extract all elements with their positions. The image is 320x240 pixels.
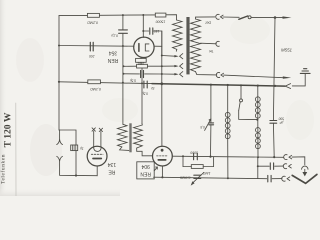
wire tap3 ext — [162, 73, 175, 75]
resistor R3 — [137, 64, 148, 68]
jack J2 — [216, 41, 219, 46]
bus B1 left — [59, 82, 152, 84]
wire coil2 tap to jack2 — [201, 42, 217, 45]
contact jaws tap1 — [180, 54, 183, 59]
phone plug hook — [302, 166, 308, 169]
speaker V contacts — [292, 174, 317, 183]
node V0 grid line — [58, 45, 60, 47]
node JL line — [75, 174, 77, 176]
variable capacitor VC2 plates — [194, 175, 201, 178]
grid resistor branch right — [213, 157, 215, 167]
wire Lc right to rail — [153, 31, 162, 56]
resistor R4 on bus — [88, 80, 101, 84]
node K0 Wk — [227, 177, 229, 179]
plug chevron J3 — [221, 73, 224, 77]
svg-text:200: 200 — [89, 54, 96, 58]
jack J6 — [282, 176, 285, 181]
wire between boxes — [140, 62, 142, 64]
wire REN354 to rail — [154, 45, 162, 47]
tube RE134 grid — [91, 153, 103, 155]
wire V275 lower — [272, 123, 275, 157]
jack JL upper fork — [57, 140, 63, 145]
svg-text:15000: 15000 — [156, 20, 166, 24]
node bus V241 — [240, 84, 242, 86]
frame line left — [15, 103, 17, 196]
node K junction — [256, 119, 258, 121]
wire REN904 cathode down — [161, 166, 163, 177]
wire V143 grid cap lead — [142, 15, 144, 37]
svg-text:Tel: Tel — [209, 49, 214, 53]
wire antenna line — [223, 16, 239, 18]
node V143 Lc — [142, 30, 144, 32]
switch S1 contact — [248, 16, 251, 19]
tube REN904 grid blob — [161, 149, 164, 152]
wire Rg right — [203, 166, 213, 168]
wire jack5 branch — [258, 165, 269, 167]
capacitor C1uF inner — [72, 145, 75, 151]
wire Lc left — [143, 30, 148, 32]
arrow tap1 — [174, 55, 178, 57]
wire J4 to plug — [292, 157, 305, 165]
node V275 Wg — [273, 156, 275, 158]
plug chevron J5 — [289, 164, 292, 168]
capacitor Cj2 plates — [268, 175, 271, 182]
wire Lr left — [123, 65, 136, 67]
ground earth bars — [300, 69, 310, 74]
wire Lr right — [147, 65, 161, 67]
contact jaws tap2 — [180, 64, 183, 69]
arrow antenna terminal — [283, 16, 292, 18]
wire Wk cathode line — [154, 177, 258, 178]
contact jaws tap3 — [180, 72, 183, 77]
node bus V210 — [210, 84, 212, 86]
node bus V275 — [274, 85, 276, 87]
svg-text:5000: 5000 — [190, 150, 198, 154]
svg-text:0,5μ: 0,5μ — [142, 91, 148, 95]
wire left rail V0 — [58, 16, 60, 130]
wire tube to box — [140, 57, 142, 60]
resistor Rg — [191, 165, 203, 169]
svg-text:Telefunken: Telefunken — [0, 154, 7, 184]
wire tap1 — [162, 55, 175, 58]
plug chevron J1 — [220, 15, 223, 19]
wire T2 secondary to grid — [137, 148, 153, 156]
node V123 La — [122, 73, 124, 75]
svg-text:0,2MΩ: 0,2MΩ — [87, 21, 98, 25]
node tap1 rail — [161, 55, 163, 57]
node Wg K1 — [257, 156, 259, 158]
coil K0 — [225, 112, 230, 138]
wire Cj2 to J6 — [272, 178, 282, 180]
tube RE134 filament loop — [94, 147, 102, 152]
arrow w1 terminal — [283, 76, 291, 78]
wire top line — [59, 14, 87, 16]
tube REN354 cathode — [138, 44, 140, 52]
transformer Ta primary coil — [173, 20, 183, 49]
arrow tap2 — [174, 65, 178, 67]
plug chevron J6 — [287, 177, 290, 181]
node bus K1 — [257, 85, 259, 87]
capacitor C2 plates — [149, 28, 151, 34]
svg-text:0,1MΩ: 0,1MΩ — [90, 87, 101, 91]
switch S2 contact — [240, 99, 243, 102]
x mark 2 — [99, 128, 102, 131]
trimmer V210 wire lower — [210, 125, 212, 157]
tube RE134 envelope — [87, 146, 107, 166]
node V123 bus — [122, 82, 124, 84]
wire T2 primary bottom — [120, 147, 129, 151]
svg-text:0,5: 0,5 — [200, 125, 205, 129]
svg-text:T 120 W: T 120 W — [2, 112, 13, 147]
phone plug tip — [302, 172, 307, 176]
wire anode drop V142 — [141, 68, 143, 124]
node Lr rail — [161, 65, 163, 67]
capacitor Ca plates — [140, 70, 142, 77]
node antenna V275 — [274, 16, 277, 19]
bus B1 right — [152, 84, 285, 87]
x mark 1 — [92, 128, 95, 131]
wire bus to earth — [292, 74, 305, 86]
rail wire to REN904 — [161, 84, 163, 146]
wire RE134 top lead 2 — [100, 132, 102, 147]
svg-text:354REN: 354REN — [107, 50, 118, 63]
wire S2 to K junction — [239, 111, 257, 120]
node Wk cathode — [161, 176, 163, 178]
wire RE134 cathode down — [96, 166, 98, 176]
node La rail — [161, 73, 163, 75]
socket box under REN354 — [136, 58, 147, 62]
transformer T2 secondary — [134, 124, 143, 148]
arrow VC2 — [191, 173, 204, 186]
wire V123 mid — [122, 33, 124, 124]
box REN904 label — [137, 162, 154, 179]
transformer T2 primary — [118, 124, 128, 147]
trimmer V210 wire upper — [210, 85, 212, 123]
coil K2 — [256, 120, 261, 158]
capacitor Cj1 plates — [270, 163, 273, 170]
node top line V123 — [122, 14, 124, 16]
node bus V142 — [141, 82, 143, 84]
capacitor Cb plates — [144, 81, 147, 88]
wire jack6 branch — [258, 178, 267, 180]
coil K0 wire lower — [227, 138, 229, 178]
wire C1uF down — [75, 151, 77, 176]
resistor R2 — [155, 13, 166, 17]
grid resistor branch left — [182, 156, 184, 166]
wire coil2 top to jack1 — [196, 17, 215, 19]
svg-text:0,1μ: 0,1μ — [111, 33, 118, 37]
transformer T2 core — [129, 123, 131, 152]
plug chevron bus end — [285, 84, 290, 89]
capacitor C5 plates — [270, 121, 277, 124]
coil K0 wire — [227, 85, 229, 112]
jack JL stem — [59, 130, 61, 140]
tube RE134 anode — [93, 158, 101, 160]
node V123 Lr — [122, 65, 124, 67]
switch S2 wire from bus — [240, 85, 242, 99]
svg-text:904REN: 904REN — [140, 163, 151, 176]
arrow tap3 — [174, 73, 178, 75]
transformer Ta secondary coil — [191, 19, 201, 72]
resistor R1 — [87, 13, 99, 17]
wire coil2 bottom to jack3 — [196, 72, 217, 75]
node bus rail — [160, 82, 163, 85]
node V0 bus — [58, 81, 60, 83]
node V210 Wg — [209, 156, 211, 158]
wire Cj1 to J5 — [275, 165, 284, 167]
wire Wg anode line — [172, 156, 283, 157]
tube REN904 grid — [157, 155, 169, 157]
node Wg g1 — [182, 155, 184, 157]
capacitor Cgk plates — [194, 153, 198, 160]
capacitor C1 plates — [119, 29, 128, 31]
tube REN904 anode — [158, 159, 165, 161]
wire V275 vertical — [273, 18, 275, 121]
jack J1 — [216, 14, 219, 19]
wire antenna line b — [251, 16, 283, 18]
wire top line c to coil — [166, 15, 177, 20]
switch S1 lever — [239, 16, 248, 19]
wire RE134 top lead 1 — [93, 131, 95, 147]
svg-text:0,0025: 0,0025 — [180, 176, 190, 180]
trimmer VCt plates — [209, 123, 214, 125]
node jack column mid — [257, 165, 259, 167]
svg-text:134RE: 134RE — [108, 161, 117, 174]
wire coil1 bottom tail — [175, 49, 178, 51]
transformer Ta core — [186, 17, 189, 74]
wire w1 to earth arrow — [224, 75, 284, 78]
svg-text:0,5μ: 0,5μ — [130, 78, 136, 82]
arrow at REN904 box — [154, 167, 157, 171]
wire V123 upper — [122, 15, 124, 30]
switch S2 lever — [239, 102, 241, 111]
arrow VCt — [205, 118, 212, 130]
node top line V143 — [142, 14, 144, 16]
tube REN354 envelope — [134, 37, 154, 57]
plug chevron J4 — [289, 155, 292, 159]
jack JL lower fork — [57, 156, 63, 161]
tube REN354 anode bracket — [145, 44, 149, 51]
tube REN904 envelope — [153, 146, 173, 166]
node V123 grid line — [122, 45, 124, 47]
capacitor Cg plates — [89, 42, 91, 51]
wire La left — [123, 73, 139, 75]
phone plug stem — [304, 169, 306, 172]
wire La right — [145, 73, 162, 75]
jack J4 — [284, 155, 287, 160]
node bus K0 — [227, 84, 229, 86]
wire V0 corner branch — [59, 130, 76, 145]
jack J5 — [283, 164, 286, 169]
jack J3 — [216, 73, 219, 78]
wire grid line REN354 — [59, 45, 134, 48]
wire top line b — [99, 14, 155, 16]
jack JL lower stem — [60, 161, 98, 176]
rail wire x=161.8 — [161, 31, 163, 84]
capacitor C1uF block — [71, 145, 78, 151]
svg-text:1μ: 1μ — [80, 147, 84, 151]
jack column vertical — [257, 157, 259, 178]
wire to Rg — [183, 166, 191, 168]
svg-text:M551: M551 — [281, 47, 293, 52]
coil K1 — [255, 86, 260, 120]
wire tap2 ext — [162, 65, 175, 67]
